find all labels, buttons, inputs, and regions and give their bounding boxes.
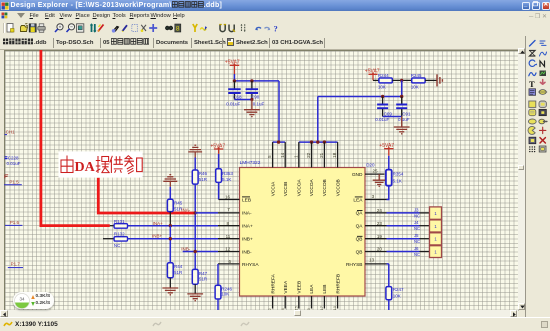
node CH1 (clipped at left)	[5, 130, 15, 135]
wire R244 to R245	[392, 79, 411, 81]
junction INB-	[194, 250, 197, 253]
svg-text:0.01uF: 0.01uF	[375, 117, 389, 122]
doc with image	[77, 24, 84, 32]
svg-text:51R: 51R	[174, 270, 183, 275]
net label J4 / NC	[414, 220, 420, 231]
redo	[265, 27, 271, 30]
svg-text:J5: J5	[414, 233, 419, 238]
svg-text:NC: NC	[414, 252, 420, 257]
svg-text:VCCOA: VCCOA	[309, 178, 315, 196]
svg-text:0.01uF: 0.01uF	[7, 161, 21, 166]
svg-text:VCCIB: VCCIB	[283, 182, 289, 197]
svg-text:34: 34	[19, 296, 25, 301]
printer	[38, 24, 45, 33]
svg-text:VCCOB: VCCOB	[335, 179, 341, 196]
svg-text:10K: 10K	[221, 292, 229, 297]
pin 21	[319, 142, 324, 167]
r1: line / polylines	[530, 41, 536, 47]
junction C91 tap	[400, 95, 403, 98]
r12: dots grid / paste array	[529, 146, 535, 152]
tab bar	[0, 36, 550, 50]
svg-text:RHREFB: RHREFB	[335, 274, 341, 294]
svg-text:5: 5	[267, 155, 272, 158]
wire QA to J4	[387, 225, 430, 227]
svg-text:24: 24	[377, 208, 383, 213]
svg-text:J3: J3	[414, 207, 419, 212]
junctions on bar2	[310, 140, 326, 143]
label D20	[366, 163, 375, 168]
svg-text:10K: 10K	[411, 85, 419, 90]
overlines for LEA QA QB	[355, 197, 363, 236]
r9: ellipse / pie-arrow	[528, 119, 536, 124]
lead R44 to ground	[169, 278, 171, 288]
ground below R44	[162, 288, 178, 295]
svg-text:R246: R246	[221, 286, 232, 291]
pin 24 QA	[365, 208, 387, 213]
svg-text:T: T	[529, 79, 535, 89]
pin 20 QB	[365, 247, 387, 252]
junction at cap ground	[250, 98, 253, 101]
node P1.6 (clipped)	[5, 220, 22, 225]
net label INA+	[153, 221, 164, 226]
horizontal scrollbar	[0, 310, 518, 317]
svg-text:INB-: INB-	[242, 249, 252, 255]
wire INB- stub	[183, 251, 218, 253]
svg-text:R47: R47	[199, 271, 208, 276]
r8: round rect / image	[529, 109, 536, 115]
wire R245 to ground	[425, 79, 437, 81]
resistor R244 10K	[373, 73, 392, 90]
pin 19 QB	[365, 234, 387, 239]
save	[29, 24, 36, 32]
op-amp U? LMH7322 body	[240, 160, 366, 296]
svg-text:LEA: LEA	[353, 197, 363, 203]
svg-text:VCCOB: VCCOB	[322, 179, 328, 196]
part browse 1	[219, 25, 226, 32]
resistor R132 (series INB+, NC)	[103, 232, 128, 249]
dashed select	[132, 25, 138, 32]
svg-text:INB+: INB+	[242, 237, 253, 243]
overline for LEB	[242, 196, 250, 198]
pin 3 LEA	[365, 194, 387, 200]
wave pen	[200, 26, 207, 31]
svg-text:25: 25	[372, 169, 378, 174]
junction INB+ / R44 column	[169, 237, 172, 240]
wire down to VCCOA/VCCOB bar	[317, 97, 319, 143]
svg-text:51R: 51R	[199, 177, 208, 182]
junction at +5VA7/C68	[233, 79, 236, 82]
svg-text:0.01uF: 0.01uF	[226, 102, 240, 107]
right pin names	[346, 172, 363, 268]
wire horizontal to pin5/14 column	[234, 80, 279, 82]
net label INA-	[181, 207, 191, 212]
svg-text:RHYSB: RHYSB	[346, 262, 363, 268]
svg-text:RHREFA: RHREFA	[270, 273, 276, 293]
svg-text:R44: R44	[174, 264, 183, 269]
svg-text:INB+: INB+	[152, 234, 163, 239]
svg-text:VEEA: VEEA	[283, 280, 289, 294]
junction at C90 tap	[250, 79, 253, 82]
wire joining C68/C90 bottoms	[234, 99, 251, 101]
blue pen	[122, 25, 127, 32]
callout text box 由DA提供参	[59, 151, 143, 177]
r3: arc / N pointer	[529, 60, 535, 66]
right drawing-tools panel	[525, 36, 550, 319]
help	[274, 24, 278, 34]
resistor R245 10K	[411, 73, 425, 90]
svg-text:13: 13	[369, 257, 375, 262]
svg-text:R354: R354	[393, 171, 404, 176]
net label J6 / NC	[414, 246, 420, 257]
svg-text:INA+: INA+	[242, 224, 253, 230]
wire joining C69/C91 bottoms	[383, 116, 402, 118]
svg-text:P1.5: P1.5	[9, 179, 19, 184]
wire QB to J6	[387, 251, 430, 253]
power +5VA7 (top-left)	[225, 60, 240, 74]
net label INB+	[152, 234, 163, 239]
svg-text:R132: R132	[114, 232, 125, 237]
pin 25 GND	[365, 169, 385, 175]
wire QB to J5	[387, 238, 430, 240]
svg-text:R45: R45	[174, 201, 183, 206]
svg-text:CH1: CH1	[6, 130, 15, 135]
r4: S-curve / graph	[529, 73, 536, 76]
vertical scrollbar	[518, 48, 525, 310]
svg-text:GND: GND	[352, 172, 363, 178]
resistor R247 10K	[386, 287, 404, 300]
r7: rect / round-rects	[529, 101, 536, 107]
new doc	[7, 24, 14, 33]
wire: red leader from callout down to INA- net	[98, 178, 195, 213]
svg-text:J4: J4	[414, 220, 419, 225]
power +5VA7 above R354	[379, 143, 394, 156]
resistor R44 51R	[167, 263, 183, 278]
svg-text:LEB: LEB	[322, 285, 328, 294]
red pen	[98, 25, 104, 32]
filter 8	[175, 24, 181, 33]
wire VCCO rail horizontal	[318, 96, 402, 98]
svg-text:16: 16	[225, 195, 231, 200]
pin 8 INA+	[218, 221, 240, 226]
ground below R47	[187, 294, 203, 301]
svg-text:C228: C228	[8, 156, 19, 161]
wire from +5VA7 down	[233, 74, 235, 81]
dotted updown	[241, 24, 246, 32]
resistor R246 10K	[215, 285, 232, 299]
svg-text:LMH7322: LMH7322	[240, 160, 261, 166]
wire R354 down to pin3	[387, 186, 389, 200]
svg-text:NC: NC	[414, 213, 420, 218]
pin 7 INA-	[218, 207, 240, 213]
bottom pin names RHREFA VEEA VEEB LEA LEB RHREFB	[270, 273, 341, 293]
resistor R354 5.1K	[386, 170, 404, 186]
svg-text:QB: QB	[356, 249, 363, 255]
svg-text:J6: J6	[414, 246, 419, 251]
connector J6 box	[430, 246, 442, 258]
svg-text:INA-: INA-	[242, 211, 252, 217]
junction INA- at R46 column	[194, 211, 197, 214]
capacitor C91	[396, 97, 411, 123]
pin 16 LEB	[219, 195, 240, 200]
net label INB-	[181, 246, 191, 251]
svg-text:P1.6: P1.6	[10, 220, 20, 225]
node P1.5 (clipped)	[4, 175, 22, 185]
undo	[255, 27, 261, 30]
svg-text:R353: R353	[222, 171, 233, 176]
resistor R47 51R	[192, 269, 208, 284]
ground below pin25	[373, 174, 386, 186]
svg-text:51R: 51R	[199, 277, 208, 282]
svg-text:NC: NC	[114, 243, 121, 248]
wire R45 column down to R44	[169, 226, 171, 263]
capacitor C68	[226, 81, 242, 107]
network speed overlay bubble	[13, 292, 54, 309]
connector J3 box	[430, 207, 442, 219]
svg-text:RHYSA: RHYSA	[242, 262, 259, 268]
svg-text:LEB: LEB	[242, 197, 251, 203]
pin 5	[267, 142, 272, 167]
svg-text:19: 19	[377, 234, 383, 239]
resistor R46 51R	[192, 170, 207, 184]
pins pair teal	[90, 24, 96, 32]
svg-text:INA-: INA-	[181, 207, 191, 212]
lead R45 bottom crossing INA- to INA+ junction	[169, 212, 171, 226]
svg-text:DA: DA	[75, 160, 96, 175]
part browse 2	[229, 25, 235, 32]
inverted ground above R46	[188, 145, 202, 157]
wire gnd to R45	[169, 187, 171, 200]
pin 12 INB-	[218, 247, 240, 252]
ground below C68/C90	[244, 100, 260, 117]
r6: textframe / ellipse-line	[529, 89, 536, 96]
junction C69 tap	[381, 95, 384, 98]
svg-text:1: 1	[293, 155, 298, 158]
sideways ground right of R245	[437, 74, 442, 86]
svg-text:22: 22	[306, 152, 311, 158]
r10: pie / cross	[528, 126, 535, 134]
title bar	[0, 0, 550, 11]
svg-text:0.1uF: 0.1uF	[253, 102, 265, 107]
svg-text:R244: R244	[378, 73, 389, 78]
svg-text:R247: R247	[393, 287, 404, 292]
svg-text:10K: 10K	[378, 85, 386, 90]
svg-text:10K: 10K	[393, 294, 401, 299]
pin 6 RHYSA	[218, 259, 240, 264]
wire R353 down to pin16	[218, 182, 220, 199]
pin 18	[332, 142, 337, 167]
toolbar	[0, 20, 550, 36]
connector J4 box	[430, 220, 442, 232]
svg-text:5.1K: 5.1K	[393, 178, 402, 183]
pin 1	[293, 142, 298, 167]
wire bar over pins 5/14	[273, 141, 286, 143]
lead R47 to ground	[194, 284, 196, 294]
wire R131 to pin8	[128, 225, 219, 227]
wire R132 to pin11	[128, 238, 219, 240]
wire INA- to pin7	[195, 212, 218, 214]
svg-text:C68: C68	[233, 94, 242, 99]
capacitor C90	[246, 81, 265, 107]
junction INA+ / R45 column	[169, 224, 172, 227]
svg-text:0.1uF: 0.1uF	[398, 117, 410, 122]
svg-text:11: 11	[226, 234, 231, 239]
wire junction down to VCCO rail	[401, 80, 403, 96]
pin 13 RHYSB	[365, 257, 387, 264]
Y probe	[193, 24, 197, 32]
wire down to VCCIA/VCCIB bar	[278, 81, 280, 142]
svg-text:VEEB: VEEB	[297, 281, 303, 294]
r11: box / delete X	[529, 137, 536, 144]
wire gnd to R46	[194, 158, 196, 171]
groove	[3, 23, 5, 33]
svg-text:21: 21	[319, 152, 324, 158]
node P1.7 (clipped)	[8, 262, 23, 268]
capacitor C228 labels (clipped)	[5, 156, 21, 167]
magnifier 2	[67, 24, 75, 32]
inverted ground above R45	[163, 175, 177, 187]
wire: highlighted net A vertical+horizontal to R131	[41, 50, 110, 226]
wire pin6 down to R246	[217, 264, 219, 285]
svg-text:C91: C91	[402, 111, 411, 116]
magnifier 1	[55, 24, 63, 32]
wire +5VA7 to R354	[388, 156, 390, 170]
wire QA to J3	[387, 212, 430, 214]
junction between R244/R245	[400, 79, 403, 82]
pin 11 INB+	[218, 234, 240, 239]
wrench cutter	[112, 27, 119, 33]
pin 22	[306, 142, 311, 167]
pin names VCCIA VCCIB VCCOA VCCOA VCCOB VCCOB	[270, 178, 341, 196]
svg-text:R131: R131	[114, 219, 125, 224]
schematic canvas	[4, 50, 519, 311]
svg-text:D20: D20	[366, 163, 375, 168]
svg-text:INB-: INB-	[181, 246, 191, 251]
r2: polygon Z / bezier	[530, 51, 536, 57]
svg-text:R46: R46	[199, 171, 208, 176]
ground below C91	[394, 117, 410, 134]
resistor R45 51R	[167, 199, 183, 211]
blue cross	[149, 24, 157, 32]
svg-text:20: 20	[377, 247, 383, 252]
power +5VA7 (above R244)	[365, 69, 380, 81]
connector J5 box	[430, 233, 442, 245]
svg-text:QA: QA	[356, 224, 364, 230]
svg-text:23: 23	[377, 221, 383, 226]
svg-text:5.1K: 5.1K	[222, 177, 231, 182]
left pin names	[242, 197, 259, 267]
net label J3 / NC	[414, 207, 420, 218]
wire +5VA7 to R353	[218, 154, 220, 169]
svg-text:?: ?	[274, 24, 278, 34]
open folder	[21, 23, 29, 31]
pin 14	[280, 142, 285, 167]
svg-text:NC: NC	[414, 226, 420, 231]
pin 23 QA	[365, 221, 387, 226]
svg-text:INA+: INA+	[153, 221, 164, 226]
svg-text:VCCIA: VCCIA	[270, 181, 276, 196]
status bar	[0, 317, 550, 331]
menu bar	[0, 11, 550, 20]
svg-text:18: 18	[332, 152, 337, 158]
svg-text:12: 12	[225, 247, 231, 252]
junction on bar1	[277, 140, 280, 143]
capacitor C69	[375, 97, 392, 123]
svg-text:14: 14	[280, 152, 285, 158]
svg-text:QA: QA	[356, 211, 364, 217]
svg-text:QB: QB	[356, 237, 363, 243]
wire pin13 down to R247	[387, 264, 389, 287]
svg-text:R245: R245	[411, 73, 422, 78]
wire bar over pins 1/22/21/18	[299, 141, 338, 143]
svg-text:8: 8	[176, 26, 180, 33]
wire R247 down (clipped)	[388, 300, 390, 311]
svg-text:VCCOA: VCCOA	[297, 178, 303, 196]
wire R246 down (clipped)	[217, 299, 219, 311]
svg-text:NC: NC	[414, 239, 420, 244]
wire R46 down to INA- junction then to INB- junction and R47	[194, 184, 196, 269]
svg-text:3: 3	[372, 194, 375, 199]
glasses	[165, 26, 172, 30]
svg-text:C69: C69	[384, 111, 393, 116]
resistor R131 (series INA+)	[110, 219, 128, 228]
svg-text:LEA: LEA	[309, 284, 315, 294]
resistor R353 5.1K	[216, 169, 234, 183]
net label J5 / NC	[414, 233, 420, 244]
bottom pins 2 4 15 3 17 10	[273, 296, 338, 309]
scissors	[141, 25, 146, 32]
power +5VA7 above R353	[210, 143, 225, 154]
svg-text:7: 7	[227, 207, 230, 212]
svg-text:P1.7: P1.7	[11, 262, 21, 267]
